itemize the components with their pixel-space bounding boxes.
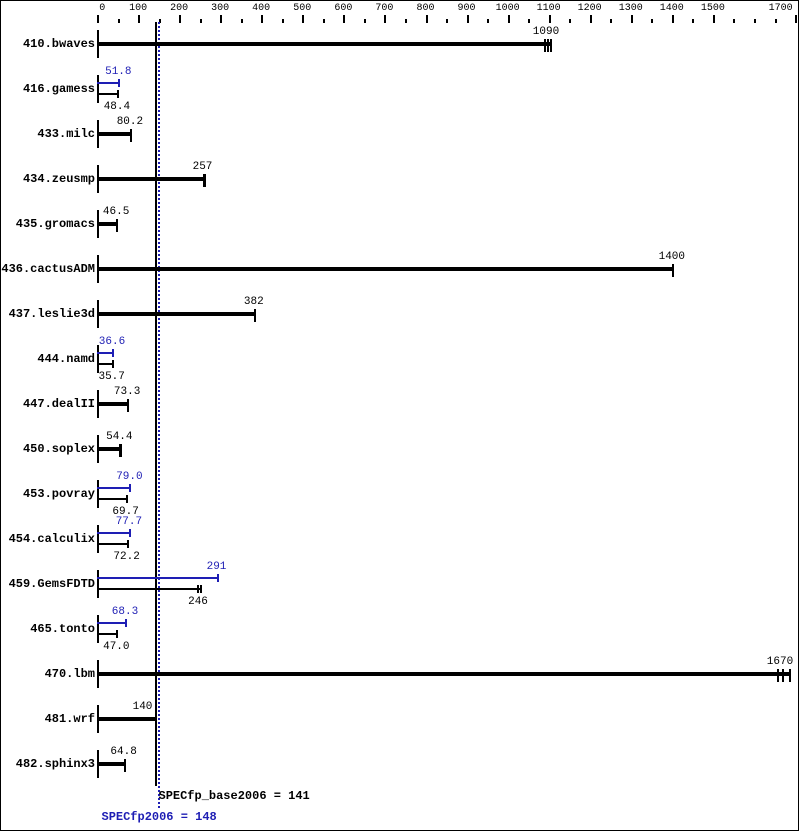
benchmark name 444.namd [1, 353, 95, 365]
peak run tick 453.povray [129, 484, 131, 492]
benchmark name 482.sphinx3 [1, 758, 95, 770]
base bar 435.gromacs = 46.5 [97, 222, 118, 226]
peak bar 453.povray = 79.0 [97, 487, 131, 489]
base run tick 444.namd #1 [112, 360, 114, 368]
base bar 459.GemsFDTD = 246 [97, 588, 202, 590]
axis minor tick 450 [282, 19, 284, 23]
benchmark name 459.GemsFDTD [1, 578, 95, 590]
base bar 454.calculix = 72.2 [97, 543, 129, 545]
axis minor tick 1350 [651, 19, 653, 23]
peak value label 77.7 [89, 517, 169, 528]
axis minor tick 50 [118, 19, 120, 23]
axis start cap 435.gromacs [97, 210, 99, 238]
base bar 410.bwaves = 1090 [97, 42, 552, 46]
base bar 436.cactusADM = 1400 [97, 267, 674, 271]
peak value label 68.3 [85, 607, 165, 618]
axis start cap 416.gamess [97, 75, 99, 103]
base bar 416.gamess = 48.4 [97, 93, 119, 95]
run tick 434.zeusmp #1 [203, 174, 206, 187]
axis start cap 436.cactusADM [97, 255, 99, 283]
axis start cap 453.povray [97, 480, 99, 508]
axis major tick 100 [138, 15, 140, 23]
base run tick 416.gamess #1 [117, 90, 119, 98]
axis major tick 400 [261, 15, 263, 23]
axis major tick 600 [343, 15, 345, 23]
axis minor tick 750 [405, 19, 407, 23]
axis minor tick 350 [241, 19, 243, 23]
axis label 1300 [601, 4, 661, 14]
base run tick 465.tonto #1 [116, 630, 118, 638]
run tick 410.bwaves #3 [550, 39, 552, 52]
SPECfp_base2006 mean line (solid, 141) [155, 22, 157, 786]
benchmark name 454.calculix [1, 533, 95, 545]
axis start cap 434.zeusmp [97, 165, 99, 193]
base value label 1670 [740, 657, 799, 668]
axis major tick 300 [220, 15, 222, 23]
axis label 1700 [751, 4, 799, 14]
base bar 433.milc = 80.2 [97, 132, 132, 136]
peak run tick 459.GemsFDTD [217, 574, 219, 582]
base bar 434.zeusmp = 257 [97, 177, 206, 181]
benchmark name 450.soplex [1, 443, 95, 455]
run tick 436.cactusADM #1 [672, 264, 674, 277]
axis start cap 437.leslie3d [97, 300, 99, 328]
axis label 1200 [560, 4, 620, 14]
base value label 140 [103, 702, 183, 713]
peak value label 79.0 [89, 472, 169, 483]
base bar 482.sphinx3 = 64.8 [97, 762, 126, 766]
peak bar 444.namd = 36.6 [97, 352, 114, 354]
axis minor tick 1050 [528, 19, 530, 23]
axis minor tick 650 [364, 19, 366, 23]
axis minor tick 1150 [569, 19, 571, 23]
base run tick 453.povray #1 [126, 495, 128, 503]
run tick 470.lbm #3 [789, 669, 791, 682]
axis start cap 444.namd [97, 345, 99, 373]
axis minor tick 950 [487, 19, 489, 23]
benchmark name 416.gamess [1, 83, 95, 95]
run tick 482.sphinx3 #1 [124, 759, 126, 772]
axis label 900 [437, 4, 497, 14]
peak value label 51.8 [78, 67, 158, 78]
SPECfp_base2006 = 141 text [159, 790, 310, 802]
axis label 200 [149, 4, 209, 14]
axis start cap 454.calculix [97, 525, 99, 553]
benchmark name 481.wrf [1, 713, 95, 725]
axis label 800 [396, 4, 456, 14]
axis major tick 200 [179, 15, 181, 23]
base value label 382 [214, 297, 294, 308]
axis minor tick 1250 [610, 19, 612, 23]
axis major tick 1400 [672, 15, 674, 23]
base value label 54.4 [79, 432, 159, 443]
axis label 1500 [683, 4, 743, 14]
base value label 47.0 [76, 642, 156, 653]
peak value label 36.6 [72, 337, 152, 348]
base value label 80.2 [90, 117, 170, 128]
axis minor tick 150 [159, 19, 161, 23]
benchmark name 465.tonto [1, 623, 95, 635]
base value label 1400 [632, 252, 712, 263]
run tick 410.bwaves #2 [547, 39, 549, 52]
axis start cap 482.sphinx3 [97, 750, 99, 778]
base bar 447.dealII = 73.3 [97, 402, 129, 406]
axis start cap 410.bwaves [97, 30, 99, 58]
axis major tick 500 [302, 15, 304, 23]
benchmark name 410.bwaves [1, 38, 95, 50]
run tick 437.leslie3d #1 [254, 309, 256, 322]
peak bar 416.gamess = 51.8 [97, 82, 120, 84]
peak run tick 444.namd [112, 349, 114, 357]
benchmark name 453.povray [1, 488, 95, 500]
SPECfp2006 mean line (blue dotted, 148) [158, 22, 160, 808]
base value label 1090 [506, 27, 586, 38]
base value label 35.7 [72, 372, 152, 383]
axis start cap 447.dealII [97, 390, 99, 418]
axis label 1400 [642, 4, 702, 14]
base bar 450.soplex = 54.4 [97, 447, 122, 451]
base run tick 454.calculix #1 [127, 540, 129, 548]
axis minor tick 1550 [733, 19, 735, 23]
axis major tick 1300 [631, 15, 633, 23]
peak run tick 454.calculix [129, 529, 131, 537]
run tick 481.wrf #1 [155, 714, 157, 727]
peak bar 459.GemsFDTD = 291 [97, 577, 219, 579]
axis major tick 1200 [590, 15, 592, 23]
base value label 64.8 [84, 747, 164, 758]
axis major tick 700 [384, 15, 386, 23]
benchmark name 470.lbm [1, 668, 95, 680]
peak run tick 465.tonto [125, 619, 127, 627]
peak run tick 416.gamess [118, 79, 120, 87]
axis label 300 [190, 4, 250, 14]
axis minor tick 550 [323, 19, 325, 23]
base value label 46.5 [76, 207, 156, 218]
run tick 447.dealII #1 [127, 399, 129, 412]
benchmark name 434.zeusmp [1, 173, 95, 185]
axis major tick 900 [467, 15, 469, 23]
axis label 1000 [478, 4, 538, 14]
axis label 100 [108, 4, 168, 14]
base run tick 459.GemsFDTD #2 [200, 585, 202, 593]
run tick 470.lbm #1 [777, 669, 779, 682]
base value label 69.7 [86, 507, 166, 518]
axis minor tick 1450 [692, 19, 694, 23]
axis start cap 450.soplex [97, 435, 99, 463]
base bar 481.wrf = 140 [97, 717, 157, 721]
axis major tick 1500 [713, 15, 715, 23]
axis major tick 0 [97, 15, 99, 23]
axis label 600 [313, 4, 373, 14]
axis start cap 433.milc [97, 120, 99, 148]
axis major tick 1000 [508, 15, 510, 23]
axis major tick 1100 [549, 15, 551, 23]
axis label 700 [354, 4, 414, 14]
benchmark name 433.milc [1, 128, 95, 140]
run tick 435.gromacs #1 [116, 219, 118, 232]
axis major tick 1700 [795, 15, 797, 23]
peak bar 454.calculix = 77.7 [97, 532, 131, 534]
SPECfp2006 = 148 text [102, 811, 217, 823]
axis minor tick 850 [446, 19, 448, 23]
axis label 400 [231, 4, 291, 14]
benchmark name 436.cactusADM [1, 263, 95, 275]
axis start cap 459.GemsFDTD [97, 570, 99, 598]
base bar 465.tonto = 47.0 [97, 633, 118, 635]
base value label 257 [163, 162, 243, 173]
run tick 470.lbm #2 [782, 669, 784, 682]
base bar 437.leslie3d = 382 [97, 312, 256, 316]
benchmark name 435.gromacs [1, 218, 95, 230]
axis label 0 [72, 4, 132, 14]
benchmark name 437.leslie3d [1, 308, 95, 320]
base bar 453.povray = 69.7 [97, 498, 128, 500]
run tick 450.soplex #1 [119, 444, 122, 457]
base run tick 459.GemsFDTD #1 [197, 585, 199, 593]
peak value label 291 [177, 562, 257, 573]
run tick 433.milc #1 [130, 129, 132, 142]
base value label 246 [158, 597, 238, 608]
base bar 444.namd = 35.7 [97, 363, 114, 365]
peak bar 465.tonto = 68.3 [97, 622, 127, 624]
base value label 48.4 [77, 102, 157, 113]
axis label 500 [272, 4, 332, 14]
base value label 72.2 [87, 552, 167, 563]
run tick 410.bwaves #1 [544, 39, 546, 52]
base value label 73.3 [87, 387, 167, 398]
axis major tick 800 [426, 15, 428, 23]
base bar 470.lbm = 1670 [97, 672, 791, 676]
axis minor tick 250 [200, 19, 202, 23]
axis minor tick 1650 [775, 19, 777, 23]
axis label 1100 [519, 4, 579, 14]
axis start cap 470.lbm [97, 660, 99, 688]
axis start cap 465.tonto [97, 615, 99, 643]
benchmark name 447.dealII [1, 398, 95, 410]
axis minor tick 1600 [754, 19, 756, 23]
axis start cap 481.wrf [97, 705, 99, 733]
